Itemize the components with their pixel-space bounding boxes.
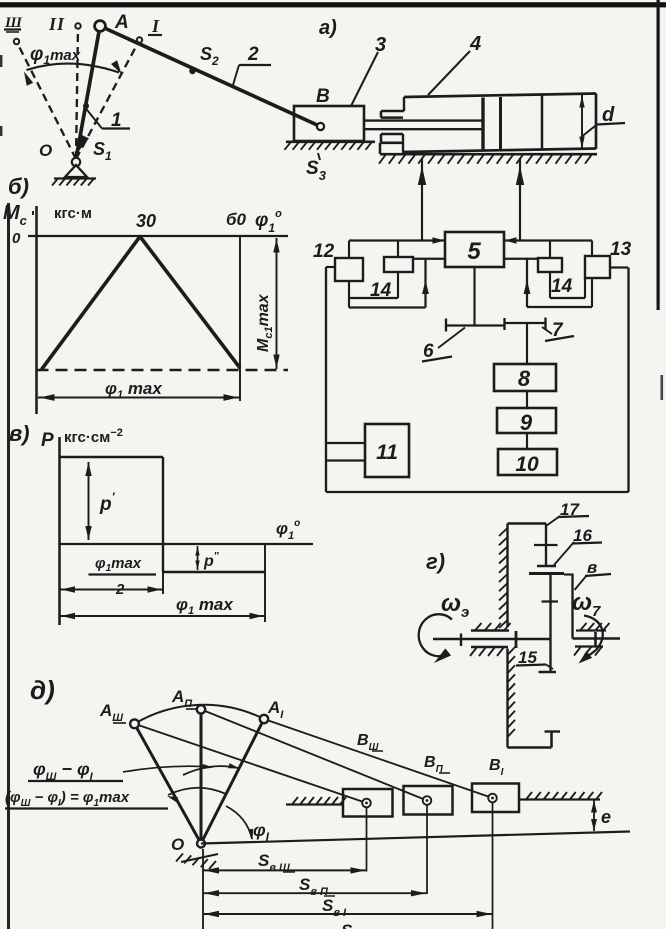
svg-text:5: 5 <box>467 238 481 265</box>
svg-text:14: 14 <box>551 276 573 297</box>
svg-text:φ1 max: φ1 max <box>176 595 234 617</box>
svg-text:11: 11 <box>376 441 398 464</box>
svg-text:30: 30 <box>136 211 156 231</box>
svg-text:e: e <box>601 807 611 827</box>
svg-text:10: 10 <box>515 453 539 476</box>
svg-text:II: II <box>48 14 65 34</box>
svg-text:б): б) <box>8 174 29 199</box>
svg-text:г): г) <box>426 549 445 574</box>
svg-text:O: O <box>39 141 52 160</box>
svg-text:д): д) <box>30 675 55 705</box>
svg-text:б0: б0 <box>226 210 247 229</box>
svg-text:в): в) <box>9 421 30 446</box>
svg-text:12: 12 <box>313 241 335 262</box>
svg-text:O: O <box>171 835 184 854</box>
svg-text:φ1max: φ1max <box>95 555 142 574</box>
svg-text:8: 8 <box>518 366 531 391</box>
svg-text:P: P <box>41 430 54 451</box>
svg-text:0: 0 <box>12 230 21 247</box>
svg-text:4: 4 <box>469 33 481 55</box>
svg-text:I: I <box>151 16 160 36</box>
svg-text:2: 2 <box>247 44 259 65</box>
svg-text:кгс·м: кгс·м <box>54 205 92 222</box>
svg-text:A: A <box>114 12 129 33</box>
svg-text:φ1max: φ1max <box>30 44 81 67</box>
svg-text:B: B <box>316 86 330 107</box>
svg-text:13: 13 <box>610 239 632 260</box>
svg-text:9: 9 <box>520 410 533 435</box>
svg-text:а): а) <box>319 17 337 39</box>
svg-text:φ1 max: φ1 max <box>105 379 163 401</box>
